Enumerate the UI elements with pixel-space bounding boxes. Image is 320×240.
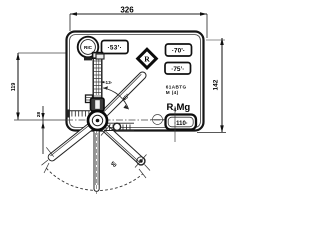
arc end ticks: [44, 163, 49, 173]
panel inner line: [70, 35, 201, 128]
svg-text:-13-: -13-: [104, 80, 113, 85]
dimension 119 line: [16, 53, 66, 120]
svg-text:61ABTG: 61ABTG: [166, 84, 187, 89]
svg-text:·110·: ·110·: [174, 121, 188, 127]
plate 75: [165, 63, 191, 75]
comb rack left: [66, 110, 90, 118]
swing arc dashed: [46, 168, 142, 190]
pivot: [88, 111, 107, 130]
leader line vertical at 175: [174, 106, 176, 142]
lever shaft: [93, 53, 103, 98]
svg-text:R4Mg: R4Mg: [167, 102, 191, 114]
lever boss: [91, 98, 105, 111]
rack right: [104, 123, 134, 130]
phantom lever left: [48, 124, 92, 161]
phantom lever right: [102, 125, 145, 166]
svg-text:326: 326: [120, 6, 134, 15]
plate 70: [166, 44, 192, 56]
left lever end tick: [46, 147, 53, 156]
svg-text:142: 142: [213, 79, 220, 90]
left lever axis extension: [42, 160, 49, 165]
angle arc overlay: [103, 88, 128, 109]
centerline through pivot: [14, 119, 66, 121]
dimension 28 line: [41, 106, 44, 154]
dimension 326 line: [70, 12, 207, 38]
diamond emblem: [138, 49, 157, 68]
svg-text:M (4): M (4): [166, 90, 179, 95]
angle arc 13-45: [103, 88, 128, 109]
svg-text:119: 119: [11, 83, 17, 92]
svg-text:·53’·: ·53’·: [107, 45, 122, 52]
dimension 142 line: [197, 38, 226, 132]
right lever axis extension: [145, 165, 151, 171]
lower vertical lever: [94, 131, 99, 194]
crosshair hole near plate 110: [151, 115, 165, 125]
centerline inside panel: [66, 119, 168, 121]
phantom lever raised 45deg: [102, 72, 146, 116]
svg-text:R: R: [144, 55, 150, 64]
right lever ticks: [101, 125, 111, 136]
svg-text:RIC: RIC: [84, 45, 93, 50]
svg-text:·75’·: ·75’·: [171, 66, 184, 73]
shaft side knob: [86, 95, 93, 103]
plate 53: [102, 41, 129, 54]
plate 110: [166, 115, 197, 130]
leader arrow for 13: [101, 81, 105, 83]
panel outline: [67, 32, 204, 131]
svg-text:·70’·: ·70’·: [172, 48, 185, 55]
svg-text:28: 28: [36, 112, 42, 118]
RIC emblem: [78, 37, 99, 61]
small plate tab under plate 53: [96, 54, 104, 59]
